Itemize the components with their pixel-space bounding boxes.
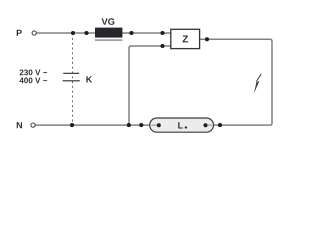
junction dot N wire before lamp [139, 123, 143, 127]
junction dot Z bottom input [160, 44, 164, 48]
label P [17, 30, 22, 36]
terminal P [32, 31, 36, 35]
igniter Z box [171, 29, 200, 48]
label 230 V ~ [20, 70, 48, 76]
junction dot top wire before Z [160, 31, 164, 35]
junction dot top wire before VG [84, 31, 88, 35]
contact K bottom bar [63, 80, 80, 82]
wire lamp right to corner, down right side, from Z output [200, 39, 272, 125]
junction dot top wire at dashed link [71, 31, 75, 35]
ballast VG body [95, 28, 122, 38]
lamp L body [150, 118, 214, 132]
wire N bottom line left of lamp [35, 124, 149, 126]
label L [178, 122, 183, 128]
lamp electrode right [204, 123, 208, 127]
junction dot after lamp [218, 123, 222, 127]
junction dot N wire at dashed link [70, 123, 74, 127]
lamp electrode right stub [206, 124, 213, 126]
label Z [183, 36, 189, 43]
label L subscript dot [185, 126, 187, 128]
lamp electrode left [157, 123, 161, 127]
lamp electrode left stub [152, 124, 159, 126]
ballast VG core bar [95, 39, 122, 41]
junction dot N wire at Z branch [127, 123, 131, 127]
wire P top line [37, 32, 171, 34]
junction dot Z output [205, 37, 209, 41]
terminal N [31, 123, 35, 127]
label N [17, 122, 22, 128]
label K [86, 76, 92, 82]
ignition flash symbol upper stroke [256, 74, 261, 82]
wire dashed link P to N through contact K [72, 33, 74, 125]
wire Z bottom branch down to N line [129, 46, 171, 125]
label 400 V ~ [19, 78, 47, 84]
contact K top bar [63, 72, 79, 74]
junction dot top wire after VG [129, 31, 133, 35]
label VG [102, 18, 115, 25]
ignition flash symbol arrow wedge [254, 81, 260, 94]
